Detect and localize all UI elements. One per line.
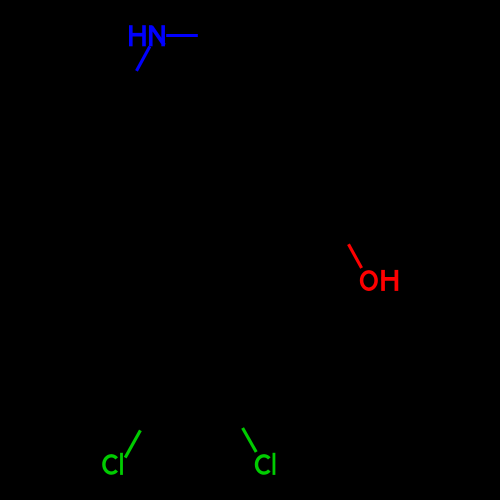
bond C-Cl (right), Cl-side half (green) (243, 428, 257, 452)
atom label N1: "HN" (blue) (129, 25, 164, 46)
bond C-O, O-side half (red) (349, 244, 362, 268)
atom label Cl1: "Cl" left (green) (104, 453, 122, 475)
atom label Cl2: "Cl" right (green) (257, 453, 274, 475)
bond N1-C2, N-side half (blue) (137, 47, 150, 71)
bond C-Cl (left), Cl-side half (green) (125, 430, 140, 457)
bond N1-C(methyl), N-side half (blue) (166, 34, 198, 37)
atom label O1: "OH" (red) (362, 270, 398, 291)
